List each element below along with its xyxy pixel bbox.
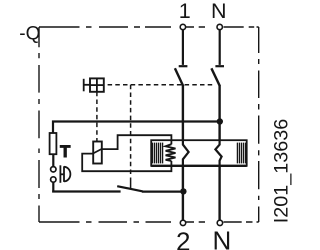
wire: phase from blade down to CT [182,86,184,142]
mechanism latch symbol (crossed square) [84,78,104,91]
device outline -Q (phantom dash-dot border, top edge) [39,27,259,222]
wire: test circuit bottom left [52,190,120,192]
wire: neutral from blade down to CT [218,86,220,142]
junction node on phase (test return) [180,188,186,194]
wire: test circuit bottom right to phase junction [142,191,184,193]
pole 1 fixed contact T-bar [179,65,188,67]
wire: CT secondary bottom (zigzag bottom to coil left) [82,154,171,172]
wire: phase from CT down to terminal 2 [182,165,184,220]
test contact blade (mechanism operated) [117,186,143,191]
terminal N (bottom) [217,220,222,225]
mechanical linkage: dashed horizontal to pole blades [108,84,216,86]
pole 1 switch blade [175,68,183,86]
current transformer core (summation CT box) [151,140,247,166]
wire: CT secondary top (coil right to zigzag top) [102,135,172,149]
wire: push-button down to test bottom wire [52,182,54,193]
wire: neutral from CT down to terminal N bottom [218,165,220,220]
svg-text:2: 2 [176,227,190,250]
wire: test circuit top (resistor to N tap) [53,122,220,134]
terminal 2 (bottom) [180,220,185,225]
wire: resistor to push-button [52,154,54,166]
trip coil (release) [93,142,102,164]
phase primary winding chevron inside CT [183,140,189,166]
svg-text:N: N [211,0,227,23]
wire: phase from terminal 1 down to fixed contact [182,30,184,65]
device outline (bottom edge) [39,221,259,223]
CT winding hatch right [237,143,245,164]
terminal N (top) [217,24,222,29]
trip coil internal diagonal (wire pass-through) [93,149,102,154]
neutral primary winding chevron inside CT [215,140,221,166]
junction node on neutral (test tap) [217,118,223,124]
wire: neutral from terminal N down to fixed contact [219,30,221,65]
CT winding hatch left [153,143,163,164]
test push-button contact circles [51,167,56,172]
CT secondary winding zigzag [166,144,176,161]
device outline (left edge) [38,27,40,222]
svg-text:T: T [60,142,71,161]
mechanical linkage: dashed vertical to trip coil [96,92,98,141]
svg-text:I201_13636: I201_13636 [271,119,293,224]
device outline (right edge) [258,27,260,222]
terminal 1 (top) [180,24,185,29]
pole N switch blade [211,68,220,86]
svg-text:-Q: -Q [19,23,40,44]
pole N fixed contact T-bar [215,65,224,67]
svg-text:1: 1 [179,0,191,23]
test resistor [50,133,57,154]
mechanical linkage: dashed vertical to test contact [130,85,132,176]
test push-button actuator [60,165,70,183]
svg-text:N: N [213,226,232,250]
